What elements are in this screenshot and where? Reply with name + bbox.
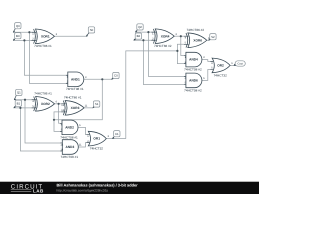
junction C0 stage2 [53, 119, 55, 121]
node flag Q1 [14, 89, 22, 100]
or-gate OR1 (74HCT32 pins 1,2 out 3) [87, 131, 110, 150]
node flag C0 [111, 72, 119, 79]
footer bar [0, 182, 259, 194]
svg-text:http://circuitlab.com/c/6gek22: http://circuitlab.com/c/6gek226hc35z [57, 188, 109, 192]
wire Q1 to XOR2 pin4 [14, 99, 31, 101]
svg-text:Q0: Q0 [16, 24, 20, 28]
junction XOR4 output branch [180, 35, 182, 37]
wire Q2 branch down to AND6 pin4 [148, 32, 184, 76]
and-gate AND3 (74HCT08 #1 pins 12,13 out 11) [60, 140, 82, 159]
svg-text:AND4: AND4 [189, 58, 198, 62]
svg-text:S1: S1 [95, 102, 99, 106]
svg-text:74HCT86 #1: 74HCT86 #1 [64, 95, 82, 99]
footer title text [57, 183, 139, 193]
wire XOR4 output to XOR6 pin4 [174, 35, 184, 37]
svg-text:74HCT32: 74HCT32 [214, 73, 228, 77]
wire B2 branch down to AND6 pin5 [143, 40, 184, 84]
svg-text:AND1: AND1 [71, 77, 80, 81]
node flag Q0 [13, 23, 21, 33]
node flag S2 [208, 34, 216, 41]
CircuitLab logo [11, 183, 44, 193]
svg-text:74HCT08 #2: 74HCT08 #2 [184, 88, 202, 92]
wire XOR3 output to S1 [84, 107, 93, 109]
svg-text:OR2: OR2 [217, 64, 224, 68]
junction Q2 branch [147, 31, 149, 33]
junction C1 stage3 [176, 50, 178, 52]
svg-text:AND2: AND2 [65, 125, 74, 129]
svg-text:XOR4: XOR4 [161, 34, 170, 38]
svg-text:S2: S2 [211, 35, 215, 39]
wire C0 down and left to stage2 [54, 79, 102, 120]
xor-gate XOR3 (74HCT86 #1 pins 12,13 out 11) [61, 95, 88, 115]
junction B1 branch [19, 107, 21, 109]
svg-text:XOR1: XOR1 [41, 34, 50, 38]
svg-text:B1: B1 [17, 101, 21, 105]
node flag B2 [134, 33, 142, 41]
svg-text:C1: C1 [115, 132, 119, 136]
wire C1 riser to stage3 [126, 51, 178, 139]
xor-gate XOR1 (74HCT86 #1 pins 1,2 out 3) [32, 29, 58, 48]
svg-text:S0: S0 [90, 28, 94, 32]
wire XOR2 output to XOR3 pin12 [55, 103, 62, 105]
and-gate AND4 (74HCT08 #2 pins 1,2 out 3) [184, 52, 205, 71]
and-gate AND6 (74HCT08 #2 pins 4,5 out 6) [184, 73, 205, 92]
svg-text:AND3: AND3 [66, 145, 75, 149]
wire XOR4 output branch to AND4 pin1 [181, 36, 184, 55]
wire OR2 output to Cout [230, 64, 234, 66]
wire AND3 output to OR1 pin2 [78, 143, 86, 147]
wire Q0 branch down to AND1 pin2 [29, 32, 65, 83]
wire Q1 branch down to AND3 pin12 [25, 100, 60, 143]
wire XOR2 output branch to AND2 pin4 [59, 104, 60, 124]
xor-gate XOR6 (74HCT86 #2 pins 4,5 out 6) [184, 28, 210, 48]
svg-text:Cout: Cout [237, 63, 243, 66]
node flag Q2 [135, 24, 143, 33]
junction B2 branch [142, 39, 144, 41]
wire AND6 output to OR2 pin5 [202, 69, 210, 80]
svg-text:74HCT86 #2: 74HCT86 #2 [154, 44, 172, 48]
svg-text:Q2: Q2 [138, 25, 142, 29]
svg-text:74HCT86 #1: 74HCT86 #1 [34, 91, 52, 95]
wire C1 to AND4 pin2 [177, 51, 184, 64]
svg-text:AND6: AND6 [189, 79, 198, 83]
junction Q0 branch [28, 31, 30, 33]
svg-text:Bill Ashmanskas (ashmanskas) /: Bill Ashmanskas (ashmanskas) / 3-bit add… [57, 183, 139, 188]
junction XOR2 output branch [58, 103, 60, 105]
node flag S0 [86, 27, 95, 37]
svg-text:OR1: OR1 [93, 137, 100, 141]
wire C0 to AND2 pin5 [54, 120, 60, 132]
svg-text:74HCT08 #1: 74HCT08 #1 [61, 155, 79, 159]
wire Q2 to XOR4 pin1 [135, 31, 151, 33]
svg-text:B2: B2 [137, 34, 141, 38]
xor-gate XOR2 (74HCT86 #1 pins 4,5 out 6) [32, 91, 58, 111]
or-gate OR2 (74HCT32 pins 4,5 out 6) [210, 58, 233, 77]
and-gate AND1 (74HCT08 #1 pins 1,2 out 3) [66, 72, 87, 91]
node flag S1 [93, 101, 100, 108]
svg-text:C0: C0 [114, 74, 118, 78]
wire XOR6 output to S2 [207, 39, 209, 41]
svg-text:74HCT08 #1: 74HCT08 #1 [60, 135, 78, 139]
svg-text:74HCT86 #1: 74HCT86 #1 [34, 44, 52, 48]
node flag C1 [112, 131, 120, 139]
wire B0 to XOR1 pin2 [13, 39, 31, 41]
node flag B0 [13, 33, 21, 41]
svg-text:Q1: Q1 [17, 91, 21, 95]
wire B0 branch down to AND1 pin1 [24, 40, 65, 75]
svg-text:XOR6: XOR6 [193, 38, 202, 42]
node flag B1 [14, 100, 22, 108]
wire AND2 output to OR1 pin1 [78, 127, 87, 134]
node flag Cout [234, 61, 246, 66]
junction C0 node [101, 78, 103, 80]
svg-text:XOR3: XOR3 [71, 106, 80, 110]
svg-text:LAB: LAB [33, 188, 44, 193]
wire XOR1 output to S0 [54, 35, 86, 37]
svg-text:74HCT86 #2: 74HCT86 #2 [187, 28, 205, 32]
svg-text:B0: B0 [16, 34, 20, 38]
svg-text:74HCT08 #1: 74HCT08 #1 [66, 87, 84, 91]
junction B0 branch [23, 39, 25, 41]
svg-text:74HCT32: 74HCT32 [90, 147, 104, 151]
wire B1 branch down to AND3 pin13 [20, 108, 60, 151]
wire C1 to XOR6 pin5 [177, 44, 184, 51]
wire B1 to XOR2 pin5 [14, 107, 32, 109]
wire AND1 output to C0 [84, 78, 112, 80]
svg-text:74HCT08 #2: 74HCT08 #2 [184, 68, 202, 72]
wire OR1 output to C1 [106, 138, 126, 140]
wire C0 to XOR3 pin13 [54, 112, 61, 120]
and-gate AND2 (74HCT08 #1 pins 4,5 out 6) [60, 120, 81, 139]
junction Q1 branch [24, 99, 26, 101]
svg-text:XOR2: XOR2 [41, 102, 50, 106]
xor-gate XOR4 (74HCT86 #2 pins 1,2 out 3) [151, 29, 177, 48]
wire Q0 to XOR1 pin1 [13, 31, 31, 33]
wire AND4 output to OR2 pin4 [202, 60, 210, 62]
wire B2 to XOR4 pin2 [134, 39, 152, 41]
